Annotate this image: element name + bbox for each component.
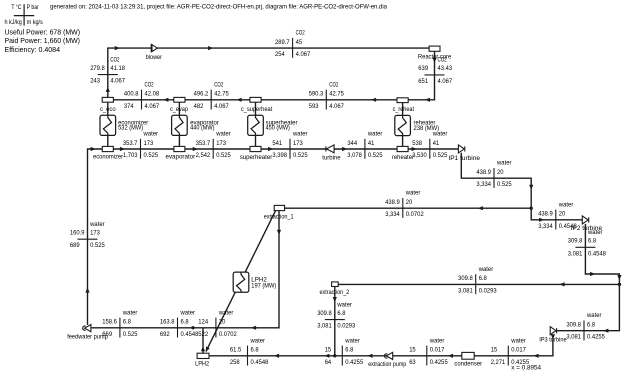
svg-text:water: water [432, 131, 447, 138]
flow arrow on CO2 line between c_reheat and c_superheat (left) [371, 98, 376, 102]
reactor core [429, 46, 440, 51]
flow arrow on CO2 line between c_evap and c_eco (left) [163, 98, 168, 102]
flow arrow after feedwater corner (right) [91, 147, 96, 151]
svg-text:water: water [478, 266, 493, 273]
svg-text:42.75: 42.75 [329, 91, 344, 98]
wire: feedwater riser and main water/steam line (economizer to IP1 turbine) [88, 149, 459, 325]
evaporator water-side rect [174, 146, 185, 151]
flow arrow on extraction_1 drain (down) [277, 230, 281, 235]
svg-text:309.8: 309.8 [458, 275, 473, 282]
svg-text:4.067: 4.067 [329, 103, 344, 110]
svg-text:173: 173 [293, 140, 303, 147]
wire: reheater vertical [402, 100, 404, 149]
svg-text:63: 63 [409, 359, 416, 366]
flow arrow on reactor downcomer (down) [432, 58, 436, 63]
svg-text:42.08: 42.08 [145, 91, 160, 98]
flow arrow on feedwater riser (up) [85, 287, 89, 292]
flow arrow after extraction pump (left) [367, 354, 372, 358]
svg-text:c_eco: c_eco [100, 106, 116, 113]
junction node at extraction_2 takeoff [618, 283, 621, 286]
svg-text:0.0702: 0.0702 [406, 211, 424, 218]
flow arrow after superheater (right) [268, 147, 273, 151]
svg-text:42.75: 42.75 [214, 91, 229, 98]
svg-text:water: water [122, 309, 137, 316]
svg-text:0.017: 0.017 [511, 347, 526, 354]
svg-text:289.7: 289.7 [275, 39, 290, 46]
svg-text:669: 669 [102, 331, 112, 338]
svg-text:353.7: 353.7 [196, 140, 211, 147]
svg-text:15: 15 [409, 347, 416, 354]
svg-text:h kJ/kg: h kJ/kg [5, 19, 23, 26]
svg-text:CO2: CO2 [329, 81, 338, 88]
svg-text:496.2: 496.2 [194, 91, 209, 98]
svg-text:158.6: 158.6 [102, 319, 117, 326]
svg-text:extraction pump: extraction pump [368, 361, 407, 368]
wire: CO2 riser from c_eco up to blower suction + top CO2 line to reactor core [108, 48, 430, 98]
svg-text:economizer: economizer [93, 154, 123, 161]
svg-text:0.525: 0.525 [144, 152, 159, 159]
svg-text:generated on: 2024-11-03 13:29: generated on: 2024-11-03 13:29:31, proje… [50, 4, 388, 11]
value label CO2 after c_evap: CO2 400.8|42.08 / 374|4.067 [124, 81, 160, 110]
svg-text:593: 593 [309, 103, 319, 110]
svg-text:258: 258 [230, 359, 240, 366]
svg-text:15: 15 [491, 347, 498, 354]
heat exchanger superheater 450 MW [248, 115, 264, 135]
svg-text:692: 692 [160, 331, 170, 338]
svg-text:CO2: CO2 [145, 81, 154, 88]
svg-text:extraction_1: extraction_1 [264, 214, 294, 221]
value label feedwater riser: water 160.9|173 / 689|0.525 [70, 221, 105, 249]
value label IP2 inlet: water 438.9|20 / 3,334|0.4548 [538, 201, 577, 230]
svg-text:438.9: 438.9 [385, 199, 400, 206]
flow arrow on LPH2 outlet stub (up) [201, 346, 205, 351]
svg-text:279.8: 279.8 [90, 65, 105, 72]
flow arrow entering LPH2 mixer (left) [274, 354, 279, 358]
svg-text:water: water [587, 229, 602, 236]
svg-text:4.067: 4.067 [145, 103, 160, 110]
svg-text:water: water [586, 312, 601, 319]
svg-text:P bar: P bar [27, 4, 39, 11]
svg-text:water: water [143, 131, 158, 138]
value label extraction_1 steam: water 438.9|20 / 3,334|0.0702 [385, 190, 424, 219]
svg-text:3,530: 3,530 [412, 152, 427, 159]
svg-text:superheater: superheater [240, 154, 273, 161]
svg-text:450 (MW): 450 (MW) [266, 125, 290, 132]
svg-text:c_superheat: c_superheat [241, 106, 273, 113]
extraction_1 splitter rect [274, 205, 284, 210]
flow arrow on top CO2 line mid (right) [208, 46, 213, 50]
c_eco rect (CO2 side economizer) [102, 97, 113, 102]
flow arrow before condenser (left) [533, 354, 538, 358]
svg-text:4.067: 4.067 [110, 78, 125, 85]
flow arrow before LPH2 (left) [324, 354, 329, 358]
svg-text:water: water [405, 190, 420, 197]
svg-text:0.0293: 0.0293 [337, 323, 355, 330]
svg-text:m kg/s: m kg/s [27, 19, 43, 26]
wire: extraction_2 steam line from IP2 outlet main [338, 283, 619, 285]
svg-text:6.8: 6.8 [337, 310, 346, 317]
svg-text:water: water [510, 337, 525, 344]
value label blower outlet: CO2 289.7|45 / 254|4.067 [275, 30, 311, 59]
wire: IP2 outlet down-right-down to IP3 inlet [556, 224, 619, 331]
svg-text:309.8: 309.8 [568, 238, 583, 245]
value label extraction_2 drain: water 309.8|6.8 / 3,081|0.0293 [317, 301, 356, 329]
svg-text:20: 20 [219, 319, 226, 326]
svg-text:water: water [180, 309, 195, 316]
svg-text:T °C: T °C [11, 3, 21, 11]
legend units cross (T °C | P bar / h kJ/kg | m kg/s) [5, 3, 43, 26]
svg-text:3,081: 3,081 [458, 287, 473, 294]
svg-text:0.525: 0.525 [90, 242, 105, 249]
value label steam after HP turbine: water 344|41 / 3,078|0.525 [347, 131, 383, 160]
value label condenser outlet: water 15|0.017 / 63|0.4255 [409, 337, 448, 366]
value label LPH2 drain: water 124|20 / 522|0.0702 [198, 309, 237, 338]
svg-text:Paid Power: 1,660 (MW): Paid Power: 1,660 (MW) [5, 36, 81, 45]
svg-text:20: 20 [497, 169, 504, 176]
svg-text:4.067: 4.067 [438, 78, 453, 85]
heat exchanger economizer 532 MW [100, 115, 116, 135]
flow arrow on CO2 line between c_superheat and c_evap (left) [236, 98, 241, 102]
value label LPH2 cold inlet: water 61.5|6.8 / 258|0.4548 [230, 337, 269, 366]
flow arrow on pump suction line (left) [251, 326, 256, 330]
svg-text:254: 254 [275, 51, 285, 58]
svg-text:water: water [218, 309, 233, 316]
svg-text:2,271: 2,271 [491, 359, 506, 366]
svg-text:water: water [496, 160, 511, 167]
svg-text:6.8: 6.8 [588, 238, 597, 245]
svg-text:0.525: 0.525 [433, 152, 448, 159]
svg-text:6.8: 6.8 [479, 275, 488, 282]
svg-text:41: 41 [433, 140, 440, 147]
flow arrow on CO2 riser (up) [106, 87, 110, 92]
svg-text:c_reheat: c_reheat [393, 106, 415, 113]
svg-text:0.0702: 0.0702 [219, 331, 237, 338]
svg-text:353.7: 353.7 [123, 140, 138, 147]
svg-text:extraction_2: extraction_2 [320, 289, 350, 296]
value label IP1 outlet: water 438.9|20 / 3,334|0.525 [476, 160, 512, 189]
value label water after economizer: water 353.7|173 / 1,703|0.525 [123, 131, 159, 160]
svg-text:482: 482 [194, 103, 204, 110]
heat exchanger LPH2 197 MW [233, 272, 249, 292]
svg-text:41.18: 41.18 [110, 65, 125, 72]
flow arrow on IP2 outlet horizontal (right) [590, 272, 595, 276]
svg-text:541: 541 [272, 140, 282, 147]
value label reactor outlet: CO2 639|43.43 / 651|4.067 [418, 57, 452, 85]
svg-text:CO2: CO2 [296, 30, 305, 37]
LPH2 mixing rect on condensate line [197, 353, 209, 358]
svg-text:309.8: 309.8 [317, 310, 332, 317]
flow arrow on IP1 drop line (down) [529, 185, 533, 190]
heat exchanger reheater 238 MW [395, 115, 411, 135]
svg-text:water: water [292, 131, 307, 138]
svg-text:3,334: 3,334 [385, 211, 400, 218]
wire: extraction_1 drain vertical down then left to feedwater pump suction [91, 211, 279, 328]
svg-text:c_evap: c_evap [170, 106, 188, 113]
svg-text:197 (MW): 197 (MW) [251, 282, 276, 289]
flow arrow after reheater (right) [412, 147, 417, 151]
flow arrow on IP3 outlet drop (down) [551, 334, 555, 339]
svg-text:689: 689 [70, 242, 80, 249]
value label steam after reheater: water 538|41 / 3,530|0.525 [412, 131, 448, 160]
IP2 turbine [582, 216, 588, 224]
blower [151, 44, 157, 52]
svg-text:173: 173 [144, 140, 154, 147]
svg-text:0.4255: 0.4255 [430, 359, 448, 366]
svg-text:1,703: 1,703 [123, 152, 138, 159]
svg-text:0.4255: 0.4255 [587, 334, 605, 341]
junction node at extraction_1 takeoff [530, 207, 533, 210]
svg-text:0.4548: 0.4548 [588, 250, 606, 257]
svg-text:243: 243 [90, 78, 100, 85]
svg-text:LPH2: LPH2 [195, 360, 209, 367]
svg-text:CO2: CO2 [214, 81, 223, 88]
svg-text:344: 344 [347, 140, 357, 147]
svg-text:Efficiency: 0.4084: Efficiency: 0.4084 [5, 45, 61, 54]
svg-text:3,081: 3,081 [566, 334, 581, 341]
svg-text:4.067: 4.067 [296, 51, 311, 58]
svg-text:4.067: 4.067 [214, 103, 229, 110]
flow arrow at end of diagonal into LPH2 [206, 346, 210, 351]
svg-text:0.017: 0.017 [430, 347, 445, 354]
svg-text:438.9: 438.9 [476, 169, 491, 176]
svg-text:173: 173 [90, 230, 100, 237]
feedwater pump [85, 325, 91, 332]
flow arrow on extraction_1 line (left) [478, 206, 483, 210]
value label IP2 outlet: water 309.8|6.8 / 3,081|0.4548 [568, 229, 607, 257]
economizer water-side rect [102, 146, 113, 151]
svg-text:400.8: 400.8 [124, 91, 139, 98]
svg-text:532 (MW): 532 (MW) [118, 125, 143, 132]
wire: economizer vertical (c_eco to water-side rect) [107, 100, 109, 149]
svg-text:water: water [215, 131, 230, 138]
flow arrow after economizer (right) [120, 147, 125, 151]
svg-text:evaporator: evaporator [166, 154, 196, 161]
svg-text:water: water [367, 131, 382, 138]
svg-text:0.4548: 0.4548 [251, 359, 269, 366]
svg-text:3,334: 3,334 [476, 181, 491, 188]
junction node on pump suction line at LPH2 outlet [191, 326, 194, 329]
superheater water-side rect [250, 146, 261, 151]
flow arrow on CO2 line before c_reheat (left) [425, 98, 430, 102]
svg-text:reheater: reheater [392, 154, 414, 161]
wire: extraction_2 drain vertical [334, 286, 336, 355]
svg-text:water: water [336, 301, 351, 308]
wire: IP1 turbine outlet down-right-down to IP2 turbine inlet [461, 153, 582, 220]
svg-text:0.4548: 0.4548 [181, 331, 199, 338]
svg-text:173: 173 [216, 140, 226, 147]
svg-text:0.525: 0.525 [368, 152, 383, 159]
svg-text:CO2: CO2 [438, 57, 447, 64]
svg-text:20: 20 [559, 211, 566, 218]
svg-text:0.525: 0.525 [216, 152, 231, 159]
svg-text:turbine: turbine [322, 154, 341, 161]
HP turbine [327, 145, 335, 153]
value label LPH2 cold outlet: water 163.8|6.8 / 692|0.4548 [160, 309, 199, 338]
flow arrow on IP2 inlet line (right) [539, 218, 544, 222]
flow arrow on top CO2 line after blower corner (right) [115, 46, 120, 50]
svg-text:309.8: 309.8 [566, 322, 581, 329]
svg-text:water: water [89, 221, 104, 228]
svg-text:163.8: 163.8 [160, 319, 175, 326]
extraction pump [386, 352, 392, 359]
svg-text:0.525: 0.525 [123, 331, 138, 338]
svg-text:41: 41 [368, 140, 375, 147]
value label CO2 after c_superheat: CO2 496.2|42.75 / 482|4.067 [194, 81, 230, 110]
svg-text:3,398: 3,398 [272, 152, 287, 159]
svg-text:water: water [344, 337, 359, 344]
svg-text:0.4548: 0.4548 [559, 223, 577, 230]
svg-text:522: 522 [198, 331, 208, 338]
reheater water-side rect [397, 146, 408, 151]
value label CO2 after c_reheat: CO2 590.3|42.75 / 593|4.067 [309, 81, 345, 110]
condenser rect [462, 352, 474, 359]
wire: LPH2 outlet stub up to pump suction line [202, 328, 204, 354]
svg-text:3,081: 3,081 [568, 250, 583, 257]
svg-text:639: 639 [418, 65, 428, 72]
svg-text:590.3: 590.3 [309, 91, 324, 98]
value label condenser inlet: water 15|0.017 / 2,271|0.4255 [491, 337, 542, 371]
svg-text:water: water [250, 337, 265, 344]
svg-text:CO2: CO2 [110, 56, 119, 63]
svg-text:6.8: 6.8 [587, 322, 596, 329]
wire: evaporator vertical [178, 100, 180, 149]
svg-text:538: 538 [412, 140, 422, 147]
svg-text:0.0293: 0.0293 [479, 287, 497, 294]
svg-text:43.43: 43.43 [438, 65, 453, 72]
wire: condensate line LPH2 - extraction pump - condenser - IP3 outlet drop [209, 335, 553, 356]
extraction_2 splitter rect [332, 282, 339, 287]
svg-text:45: 45 [296, 39, 303, 46]
svg-text:15: 15 [325, 347, 332, 354]
svg-text:438.9: 438.9 [538, 211, 553, 218]
svg-text:IP1 turbine: IP1 turbine [448, 155, 480, 162]
value label extraction_2 steam: water 309.8|6.8 / 3,081|0.0293 [458, 266, 497, 295]
svg-text:374: 374 [124, 103, 134, 110]
flow arrow on right downcomer (down) [617, 275, 621, 280]
svg-text:20: 20 [406, 199, 413, 206]
flow arrow on IP3 inlet line (left) [603, 329, 608, 333]
IP3 turbine [550, 327, 556, 335]
flow arrow after condenser (left) [448, 354, 453, 358]
value label steam after superheater: water 541|173 / 3,398|0.525 [272, 131, 308, 160]
svg-text:64: 64 [325, 359, 332, 366]
wire: reactor core CO2 downcomer and hot CO2 line through reheat/superheat/evap/eco [102, 51, 435, 100]
value label water after evaporator: water 353.7|173 / 2,542|0.525 [196, 131, 232, 160]
svg-text:6.8: 6.8 [123, 319, 132, 326]
svg-text:water: water [558, 201, 573, 208]
junction node where extraction_2 drain joins condensate [333, 354, 336, 357]
heat exchanger evaporator 440 MW [172, 115, 188, 135]
svg-text:3,081: 3,081 [317, 323, 332, 330]
svg-text:160.9: 160.9 [70, 230, 85, 237]
svg-text:0.525: 0.525 [293, 152, 308, 159]
wire: extraction_1 steam line (to the left into extraction_1) [285, 207, 532, 209]
svg-text:61.5: 61.5 [230, 347, 242, 354]
svg-text:6.8: 6.8 [345, 347, 354, 354]
svg-text:IP3 turbine: IP3 turbine [539, 336, 567, 343]
svg-text:0.525: 0.525 [497, 181, 512, 188]
svg-text:440 (MW): 440 (MW) [190, 125, 214, 132]
wire: superheater vertical [255, 100, 257, 149]
flow arrow on extraction_2 line (left) [559, 282, 564, 286]
svg-text:6.8: 6.8 [181, 319, 190, 326]
svg-text:124: 124 [198, 319, 208, 326]
svg-text:651: 651 [418, 78, 428, 85]
svg-text:blower: blower [146, 54, 162, 61]
value label CO2 riser: CO2 279.8|41.18 / 243|4.067 [90, 56, 125, 84]
c_evap rect (CO2 side evaporator) [174, 97, 185, 102]
c_superheat rect (CO2 side superheater) [250, 97, 261, 102]
value label extraction pump outlet: water 15|6.8 / 64|0.4255 [325, 337, 364, 366]
svg-text:2,542: 2,542 [196, 152, 211, 159]
svg-text:condenser: condenser [454, 360, 482, 367]
svg-text:0.4255: 0.4255 [345, 359, 363, 366]
flow arrow after evaporator (right) [193, 147, 198, 151]
IP1 turbine [458, 145, 464, 153]
value label feedwater pump suction: water 158.6|6.8 / 669|0.525 [102, 309, 138, 338]
value label IP3 inlet: water 309.8|6.8 / 3,081|0.4255 [566, 312, 605, 341]
flow arrow after turbine (right) [342, 147, 347, 151]
svg-text:6.8: 6.8 [251, 347, 260, 354]
svg-text:water: water [429, 337, 444, 344]
svg-text:x = 0.8954: x = 0.8954 [511, 365, 541, 372]
svg-text:3,334: 3,334 [538, 223, 553, 230]
flow arrow on extraction_2 drain (down) [333, 297, 337, 302]
svg-text:3,078: 3,078 [347, 152, 362, 159]
wire: extraction_1 steam diagonal through LPH2 heat exchanger [206, 211, 276, 352]
c_reheat rect (CO2 side reheater) [397, 98, 408, 103]
